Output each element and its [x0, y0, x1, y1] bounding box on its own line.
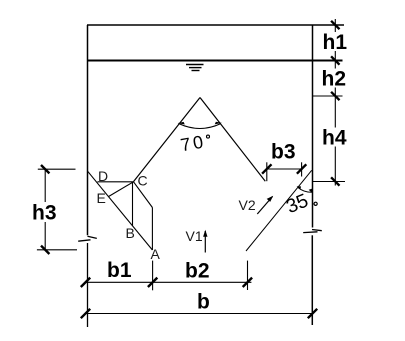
tick crest level	[331, 177, 339, 185]
label h3	[30, 202, 61, 222]
right wall break symbol	[312, 230, 322, 231]
label h1	[321, 32, 347, 51]
svg-text:B: B	[126, 225, 135, 241]
svg-text:D: D	[98, 168, 108, 184]
svg-text:h2: h2	[322, 68, 347, 91]
tick b3 right	[297, 164, 306, 173]
arc arrowhead left	[178, 122, 185, 125]
h3 bottom extension line	[37, 249, 77, 251]
left wall lower segment / extension line	[87, 243, 89, 327]
tick b left	[81, 309, 90, 318]
svg-text:35: 35	[283, 190, 311, 219]
b3 dimension line	[266, 168, 303, 170]
35 degree arc	[298, 187, 312, 192]
tick h3 bottom	[41, 246, 49, 254]
label 35deg	[283, 190, 311, 219]
label 70deg	[179, 131, 207, 155]
V2 velocity arrow	[257, 197, 272, 215]
tick b1/b2 middle	[148, 278, 157, 287]
label h2	[320, 69, 347, 88]
b1 b2 dimension line	[86, 281, 252, 283]
extension line at crest level (h4 bottom)	[313, 181, 346, 183]
right wall upper segment	[312, 25, 314, 228]
V1 velocity arrow	[204, 231, 206, 253]
left wall break symbol	[88, 236, 97, 238]
svg-text:b1: b1	[107, 259, 132, 282]
b dimension line	[86, 313, 313, 315]
weir plate diagonal D-A	[88, 171, 153, 250]
tick h3 top	[41, 165, 49, 173]
sloped bank line	[246, 170, 312, 251]
70 degree arc	[179, 124, 222, 129]
left wall upper segment	[87, 25, 89, 235]
water surface symbol	[186, 64, 204, 66]
svg-text:b3: b3	[271, 141, 296, 164]
svg-text:V2: V2	[239, 197, 256, 213]
svg-text:V1: V1	[186, 228, 203, 244]
extension line below A	[152, 261, 154, 291]
right vertical dimension line	[334, 19, 336, 186]
tick b1 left	[81, 278, 90, 287]
label h4	[321, 128, 349, 147]
svg-text:h1: h1	[323, 31, 348, 54]
weir plate vertical F-A	[151, 208, 153, 251]
weir plate bevel C-F	[134, 182, 153, 208]
h3 dimension line	[44, 169, 46, 250]
weir plate vertical C-B	[132, 182, 134, 226]
water surface line	[88, 60, 343, 62]
tick b3 left	[262, 164, 271, 173]
extension line at slope foot	[247, 261, 249, 290]
svg-text:A: A	[151, 246, 161, 262]
tick b2 right	[243, 278, 252, 287]
right wall lower segment	[311, 235, 313, 325]
b3 left extension bar	[266, 162, 268, 181]
tick peak level	[331, 92, 339, 100]
b3 right extension bar	[301, 162, 303, 176]
tank top edge	[87, 24, 344, 26]
svg-text:h3: h3	[32, 202, 57, 225]
V-notch left leg	[134, 98, 201, 182]
V-notch right leg	[200, 98, 265, 182]
svg-text:b2: b2	[185, 260, 210, 283]
tick h1 top	[331, 21, 339, 29]
weir plate crest D-C	[97, 181, 133, 183]
svg-text:70: 70	[179, 131, 207, 155]
svg-text:b: b	[197, 291, 210, 314]
tick water level	[331, 56, 339, 64]
weir plate edge E-C	[108, 182, 133, 197]
arc arrowhead right	[215, 122, 222, 125]
tick b right	[308, 309, 317, 318]
extension line at notch peak level	[313, 95, 343, 97]
svg-text:E: E	[97, 190, 106, 206]
svg-text:C: C	[138, 173, 148, 189]
svg-text:h4: h4	[322, 127, 347, 150]
h3 top extension line	[38, 168, 76, 170]
